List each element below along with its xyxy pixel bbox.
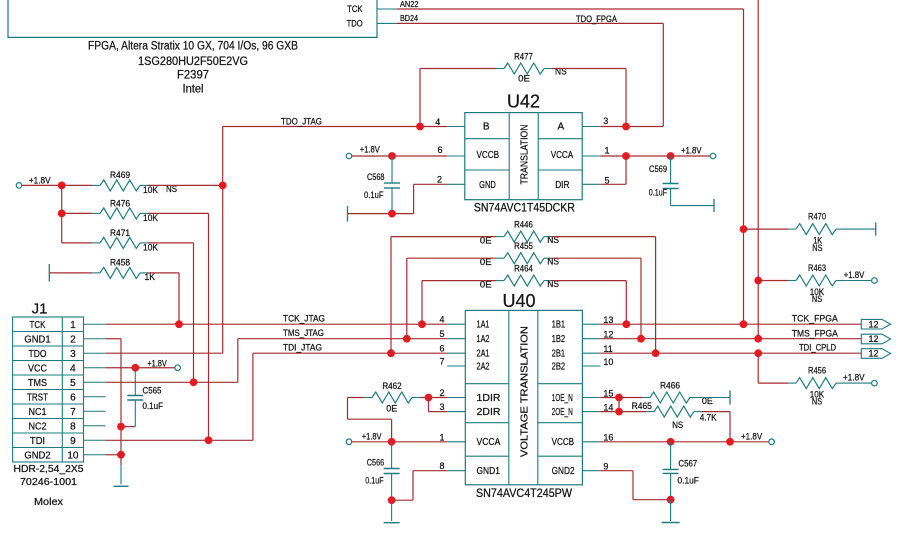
- resistor R476 10K: [92, 199, 158, 224]
- svg-text:6: 6: [437, 145, 442, 155]
- junction R469 left: [58, 182, 66, 190]
- svg-text:0.1uF: 0.1uF: [143, 401, 164, 411]
- FPGA block outline Altera Stratix 10 GX: [8, 0, 377, 37]
- svg-text:2A2: 2A2: [477, 361, 490, 372]
- net label TMS_FPGA: [792, 328, 838, 338]
- svg-text:TCK: TCK: [30, 320, 46, 331]
- svg-text:4: 4: [70, 363, 76, 374]
- svg-text:4.7K: 4.7K: [700, 412, 717, 422]
- ground symbol U40 right: [662, 522, 680, 524]
- wire TCK_JTAG J1 pin1 to U40 1A1: [106, 323, 448, 325]
- junction R455 on TMS_FPGA: [637, 335, 645, 343]
- svg-text:C567: C567: [678, 458, 697, 468]
- wire TDI_CPLD row U40 pin11 to tag: [600, 352, 861, 354]
- svg-text:0.1uF: 0.1uF: [364, 190, 384, 200]
- svg-text:10: 10: [67, 450, 79, 461]
- svg-text:R455: R455: [514, 241, 533, 251]
- resistor R466 0E: [642, 380, 713, 406]
- junction U42 pin3 node: [622, 123, 630, 131]
- svg-text:10K: 10K: [143, 185, 158, 195]
- junction C567 bottom: [667, 496, 675, 504]
- junction R456 branch on TDI_CPLD: [754, 349, 762, 357]
- junction R476 left: [58, 210, 66, 218]
- svg-text:NC2: NC2: [29, 421, 47, 432]
- power +1.8V terminal at U42 VCCA: [681, 145, 716, 159]
- svg-text:6: 6: [439, 344, 444, 354]
- FPGA pin number AN22: [400, 0, 419, 9]
- J1 part number text: [14, 463, 84, 508]
- svg-text:NS: NS: [812, 397, 822, 407]
- junction R471 on TMS: [190, 378, 198, 386]
- resistor R446 0E NS: [480, 220, 559, 246]
- svg-text:F2397: F2397: [177, 67, 209, 81]
- wire net TCK from FPGA AN22 to right vertical: [397, 9, 744, 324]
- svg-text:VCCA: VCCA: [551, 150, 574, 161]
- U42 cell text VCCB: [477, 150, 500, 161]
- power +1.8V terminal at J1 VCC: [147, 359, 180, 371]
- svg-text:6: 6: [70, 392, 76, 403]
- termination bar C569: [713, 199, 715, 212]
- wire TDI_CPLD branch to R456: [758, 353, 788, 383]
- net label TDI_JTAG: [283, 343, 322, 353]
- svg-text:+1.8V: +1.8V: [360, 145, 380, 155]
- svg-text:R463: R463: [808, 263, 826, 273]
- wire TDO row J1 pin3: [106, 352, 223, 354]
- svg-text:+1.8V: +1.8V: [741, 431, 762, 441]
- svg-text:VCCB: VCCB: [552, 437, 575, 448]
- junction C568 top: [388, 152, 396, 160]
- U42 pin 1 stub: [582, 145, 609, 156]
- svg-text:7: 7: [439, 357, 444, 367]
- svg-text:NS: NS: [672, 420, 683, 430]
- svg-text:U40: U40: [503, 291, 536, 311]
- svg-text:A: A: [557, 122, 564, 133]
- svg-text:7: 7: [70, 407, 76, 418]
- wire R463 right to +1.8V: [844, 280, 871, 282]
- net label TDO_FPGA: [576, 14, 617, 24]
- svg-text:TDO_FPGA: TDO_FPGA: [576, 14, 617, 24]
- wire U42 pin1 to +1.8V: [600, 155, 710, 157]
- wire TMS_JTAG to U40 1A2: [238, 338, 447, 340]
- svg-text:16: 16: [603, 433, 613, 443]
- svg-text:TRANSLATION: TRANSLATION: [519, 125, 531, 185]
- off-page connector tag TDI_CPLD page 12: [861, 349, 890, 359]
- junction R455 on TMS_JTAG: [403, 335, 411, 343]
- svg-text:3: 3: [70, 349, 76, 360]
- U42 cell text TRANSLATION: [519, 125, 531, 185]
- svg-text:R446: R446: [514, 220, 533, 230]
- svg-text:1DIR: 1DIR: [477, 393, 501, 404]
- svg-text:0E: 0E: [518, 74, 530, 84]
- wire TDO vertical to J1 TDO row: [222, 127, 224, 354]
- wire OE to R466: [619, 397, 642, 399]
- power +1.8V terminal at U42 VCCB: [346, 145, 380, 159]
- resistor R462 0E: [364, 381, 420, 413]
- U42 cell text GND: [479, 180, 496, 191]
- resistor R469 10K NS: [92, 170, 177, 195]
- net label TMS_JTAG: [283, 328, 324, 338]
- svg-text:R471: R471: [110, 228, 130, 238]
- U42 refdes label: [507, 92, 540, 112]
- FPGA caption text: [88, 41, 298, 96]
- junction R469 right on TDO net: [219, 182, 227, 190]
- resistor R455 0E NS: [480, 241, 559, 267]
- svg-text:R462: R462: [382, 381, 401, 391]
- wire VCC J1 pin4 to +1.8V: [106, 367, 175, 369]
- svg-text:R458: R458: [110, 258, 130, 268]
- svg-text:TDI: TDI: [30, 436, 45, 447]
- termination bar R470: [875, 223, 877, 236]
- svg-text:4: 4: [439, 315, 444, 325]
- junction R463 on TMS net: [754, 277, 762, 285]
- wire OE pins tie: [600, 398, 619, 412]
- svg-text:Molex: Molex: [34, 496, 64, 508]
- U40 right pin stubs and numbers: [582, 315, 613, 472]
- svg-text:GND2: GND2: [552, 466, 575, 477]
- svg-text:3: 3: [439, 402, 444, 412]
- svg-text:1SG280HU2F50E2VG: 1SG280HU2F50E2VG: [138, 56, 248, 68]
- U40 left pin stubs and numbers: [439, 315, 465, 472]
- svg-text:GND2: GND2: [24, 450, 51, 461]
- svg-text:R470: R470: [808, 212, 826, 222]
- U42 pin 4 stub: [435, 117, 465, 127]
- junction R458 on TCK_JTAG: [175, 320, 183, 328]
- wire net TMS_FPGA vertical from top edge: [757, 0, 759, 339]
- svg-text:0E: 0E: [386, 403, 397, 413]
- net label TDO_JTAG: [281, 117, 322, 127]
- svg-text:10: 10: [603, 357, 613, 367]
- junction U40 VCCA node: [388, 438, 396, 446]
- svg-text:GND1: GND1: [477, 466, 501, 477]
- svg-text:+1.8V: +1.8V: [147, 359, 166, 369]
- svg-text:R456: R456: [808, 365, 826, 375]
- net label TCK_FPGA: [792, 314, 838, 324]
- U42 pin 6 stub: [437, 145, 464, 156]
- svg-text:+1.8V: +1.8V: [681, 145, 702, 155]
- wire U42 pin4 riser to R477: [420, 69, 496, 127]
- wire R466 right to termination: [698, 397, 730, 399]
- svg-text:+1.8V: +1.8V: [844, 270, 865, 280]
- svg-text:0.1uF: 0.1uF: [649, 187, 668, 197]
- svg-text:12: 12: [868, 319, 878, 329]
- svg-text:14: 14: [603, 402, 613, 412]
- svg-text:R477: R477: [514, 51, 533, 61]
- U40 right cell text: [552, 320, 575, 478]
- svg-text:NS: NS: [812, 243, 822, 253]
- svg-text:Intel: Intel: [183, 81, 204, 95]
- wire R446 right riser: [552, 237, 656, 354]
- off-page connector tag TMS_FPGA page 12: [861, 334, 890, 344]
- svg-text:TDO: TDO: [347, 18, 363, 28]
- wire R464 right riser: [552, 281, 626, 325]
- power +1.8V terminal at U40 VCCA: [346, 431, 381, 444]
- svg-text:1: 1: [439, 432, 444, 442]
- svg-text:BD24: BD24: [400, 14, 418, 23]
- svg-text:10K: 10K: [143, 243, 158, 253]
- svg-text:SN74AVC4T245PW: SN74AVC4T245PW: [476, 488, 572, 500]
- junction TMS vertical end: [754, 335, 762, 343]
- junction C569 top: [667, 152, 675, 160]
- ground symbol J1: [114, 485, 129, 487]
- U42 part number label: [474, 203, 575, 215]
- svg-text:VOLTAGE TRANSLATION: VOLTAGE TRANSLATION: [519, 326, 531, 457]
- wire R465 right to +1.8V: [702, 412, 730, 442]
- resistor R463 10K NS: [788, 263, 844, 304]
- wire TCK_FPGA row U40 pin13 to tag: [600, 323, 861, 325]
- svg-text:2A1: 2A1: [477, 349, 490, 360]
- svg-text:2: 2: [439, 388, 444, 398]
- svg-text:TDO: TDO: [29, 349, 47, 360]
- svg-text:12: 12: [868, 349, 878, 359]
- svg-text:+1.8V: +1.8V: [843, 373, 865, 383]
- connector J1 body HDR-2,54_2X5: [13, 317, 84, 462]
- svg-text:9: 9: [70, 436, 76, 447]
- svg-text:2OE_N: 2OE_N: [552, 407, 573, 418]
- svg-text:TDI_CPLD: TDI_CPLD: [799, 343, 836, 353]
- U42 cell text A: [557, 122, 564, 133]
- svg-text:J1: J1: [32, 301, 48, 318]
- ground bar terminal left of C568: [347, 206, 349, 222]
- svg-text:R466: R466: [660, 380, 680, 390]
- wire C569 bottom to termination: [671, 205, 714, 207]
- svg-text:11: 11: [603, 344, 612, 354]
- wire OE to R465: [619, 411, 646, 413]
- capacitor C566 0.1uF: [365, 442, 399, 500]
- svg-text:+1.8V: +1.8V: [362, 431, 382, 441]
- J1 refdes label: [32, 301, 48, 318]
- U42 pin 2 stub: [437, 175, 465, 185]
- capacitor C565 0.1uF: [127, 368, 163, 427]
- U40 left cell text: [477, 320, 501, 478]
- junction R464 on TCK_FPGA: [622, 320, 630, 328]
- wire R476 right down to TDI row: [148, 213, 209, 440]
- svg-text:TDI_JTAG: TDI_JTAG: [283, 343, 322, 353]
- wire TMS J1 pin5 riser: [106, 339, 238, 383]
- svg-text:R465: R465: [632, 401, 652, 411]
- power +1.8V terminal at R469: [16, 175, 50, 188]
- wire TDI_JTAG to U40 2A1: [253, 352, 447, 354]
- svg-text:TDO_JTAG: TDO_JTAG: [281, 117, 322, 127]
- svg-text:FPGA, Altera Stratix 10 GX, 70: FPGA, Altera Stratix 10 GX, 704 I/Os, 96…: [88, 41, 298, 53]
- svg-text:15: 15: [603, 388, 613, 398]
- wire GND2 J1 pin10: [106, 454, 121, 456]
- svg-text:0.1uF: 0.1uF: [365, 475, 384, 485]
- off-page connector tag TCK_FPGA page 12: [861, 319, 890, 329]
- svg-text:4: 4: [435, 117, 440, 127]
- resistor R470 1K NS: [788, 212, 844, 253]
- termination bar R466: [729, 391, 731, 405]
- svg-text:TCK_JTAG: TCK_JTAG: [283, 314, 325, 324]
- svg-text:+1.8V: +1.8V: [29, 175, 51, 185]
- junction TCK vertical end: [740, 320, 748, 328]
- svg-text:C568: C568: [367, 172, 385, 182]
- junction C565 top: [131, 364, 139, 372]
- junction U42 pin4 node: [416, 123, 424, 131]
- svg-text:U42: U42: [507, 92, 540, 112]
- svg-text:NC1: NC1: [29, 407, 47, 418]
- svg-text:C569: C569: [649, 164, 667, 174]
- junction 2OE_N: [615, 408, 623, 416]
- capacitor C567 0.1uF: [663, 442, 700, 500]
- svg-text:0.1uF: 0.1uF: [678, 476, 700, 486]
- wire +1.8V to R469: [22, 184, 92, 186]
- svg-text:1A2: 1A2: [477, 334, 490, 345]
- svg-text:B: B: [483, 122, 490, 133]
- U42 cell text B: [483, 122, 490, 133]
- svg-text:TMS_FPGA: TMS_FPGA: [792, 328, 838, 338]
- svg-text:1: 1: [70, 320, 76, 331]
- resistor R458 1K: [92, 258, 155, 283]
- wire R477 right to U42 pin3: [552, 69, 626, 127]
- U40 refdes label: [503, 291, 536, 311]
- wire R462 right to DIR pins: [420, 397, 447, 399]
- capacitor C568 0.1uF: [364, 156, 400, 214]
- power +1.8V terminal at R463: [844, 270, 878, 283]
- wire net TDO_FPGA from FPGA BD24 down to U42 pin 3: [397, 23, 663, 126]
- svg-text:TRST: TRST: [27, 392, 48, 403]
- junction 1OE_N: [615, 394, 623, 402]
- svg-text:TCK_FPGA: TCK_FPGA: [792, 314, 838, 324]
- svg-text:3: 3: [603, 116, 608, 126]
- svg-text:2B2: 2B2: [552, 361, 566, 372]
- svg-text:C566: C566: [367, 457, 384, 467]
- wire R455 right riser: [552, 258, 641, 339]
- junction C566 bottom: [388, 496, 396, 504]
- wire U40 GND1 to ground: [392, 471, 448, 501]
- svg-text:AN22: AN22: [400, 0, 419, 9]
- capacitor C569 0.1uF: [649, 156, 679, 206]
- wire TMS_FPGA row U40 pin12 to tag: [600, 338, 861, 340]
- junction C568 bottom: [388, 210, 396, 218]
- svg-text:R476: R476: [110, 199, 130, 209]
- U40 part number label: [476, 488, 572, 500]
- svg-text:DIR: DIR: [555, 180, 569, 191]
- svg-text:HDR-2,54_2X5: HDR-2,54_2X5: [14, 463, 84, 475]
- svg-text:VCCA: VCCA: [477, 437, 501, 448]
- wire +1.8V to U40 pin1: [352, 441, 447, 443]
- resistor R477 0E NS: [496, 51, 567, 83]
- wire GND1 J1 pin2 to ground: [106, 339, 121, 485]
- resistor R471 10K: [92, 228, 158, 253]
- junction R446 on TDI_CPLD: [652, 349, 660, 357]
- power +1.8V terminal at R456: [843, 373, 877, 386]
- wire R458 right down to TCK row: [148, 273, 179, 324]
- svg-text:13: 13: [603, 315, 613, 325]
- termination bar R458 left: [48, 264, 50, 282]
- junction R476 on TDI: [205, 436, 213, 444]
- wire ground drop U40 right: [670, 500, 672, 521]
- junction R465 on VCCB: [726, 438, 734, 446]
- svg-text:C565: C565: [143, 385, 162, 395]
- svg-text:R464: R464: [514, 264, 533, 274]
- svg-text:5: 5: [70, 378, 76, 389]
- wire TMS vertical to R463: [758, 280, 788, 282]
- wire R471 left: [62, 242, 92, 244]
- wire DIR tie U42 pin5 to pin1: [600, 156, 626, 184]
- junction R470 on TCK net: [740, 225, 748, 233]
- junction R464 on TCK_JTAG: [418, 320, 426, 328]
- svg-text:1B1: 1B1: [552, 320, 566, 331]
- svg-text:TCK: TCK: [347, 4, 363, 14]
- power +1.8V terminal at U40 VCCB: [741, 431, 774, 444]
- svg-text:1: 1: [604, 145, 609, 155]
- U40 cell text VOLTAGE TRANSLATION: [519, 326, 531, 457]
- U42 pin 3 stub: [582, 116, 608, 127]
- wire TCK vertical to R470: [744, 228, 789, 230]
- svg-text:TMS: TMS: [28, 378, 47, 389]
- svg-text:2DIR: 2DIR: [477, 407, 501, 418]
- svg-text:1OE_N: 1OE_N: [552, 393, 573, 404]
- wire R462 left to +1.8V: [348, 398, 392, 442]
- resistor R456 10K NS: [788, 365, 844, 406]
- resistor R465 4.7K NS: [632, 401, 717, 430]
- svg-text:2: 2: [70, 334, 76, 345]
- junction C567 top: [667, 438, 675, 446]
- wire U40 GND2 to ground: [600, 471, 670, 500]
- U42 pin 5 stub: [582, 176, 609, 186]
- svg-text:TMS_JTAG: TMS_JTAG: [283, 328, 324, 338]
- wire +1.8V to U42 pin6: [352, 155, 447, 157]
- svg-text:R469: R469: [110, 170, 130, 180]
- junction U42 pin1 node: [622, 152, 630, 160]
- svg-text:2B1: 2B1: [552, 349, 566, 360]
- wire R464 left riser: [422, 281, 496, 325]
- J1 pin name and number text: [24, 320, 78, 462]
- wire R471 right down to TMS row: [148, 243, 194, 382]
- svg-text:10K: 10K: [143, 213, 158, 223]
- wire R476 left: [62, 212, 92, 214]
- ground symbol U40 left: [384, 522, 400, 524]
- svg-text:NS: NS: [812, 294, 822, 304]
- svg-text:1B2: 1B2: [552, 334, 566, 345]
- FPGA pin TDO stub: [347, 18, 397, 28]
- svg-text:VCCB: VCCB: [477, 150, 500, 161]
- resistor R464 0E NS: [480, 264, 559, 290]
- op-amp U42 body SN74AVC1T45DCKR: [465, 113, 582, 200]
- svg-text:GND: GND: [479, 180, 496, 191]
- svg-text:70246-1001: 70246-1001: [20, 476, 77, 488]
- junction R446 on TDI_JTAG: [387, 349, 395, 357]
- U42 cell text DIR: [555, 180, 569, 191]
- wire ground drop U40 left: [391, 500, 393, 521]
- wire TDO_JTAG into U42 pin4: [223, 126, 447, 128]
- J1 pin stubs: [84, 324, 106, 455]
- svg-text:1A1: 1A1: [477, 320, 490, 331]
- wire TDI J1 pin9 riser: [106, 353, 253, 440]
- wire R469 to TDO vertical: [148, 184, 223, 186]
- wire R446 left riser: [391, 237, 496, 354]
- junction C565 bottom on ground: [117, 423, 125, 431]
- wire +1.8V rail down left: [61, 185, 63, 243]
- U42 cell text VCCA: [551, 150, 574, 161]
- svg-text:5: 5: [439, 329, 444, 339]
- svg-text:VCC: VCC: [28, 363, 47, 374]
- junction GND2 row on ground: [117, 451, 125, 459]
- junction R462 DIR node: [425, 394, 433, 402]
- wire R456 right to +1.8V: [844, 382, 871, 384]
- svg-text:GND1: GND1: [24, 334, 51, 345]
- svg-text:9: 9: [603, 462, 608, 472]
- op-amp U40 body SN74AVC4T245PW: [465, 310, 582, 484]
- wire U42 GND rail: [348, 184, 447, 213]
- net label TDI_CPLD: [799, 343, 836, 353]
- svg-text:2: 2: [437, 175, 442, 185]
- wire U40 VCCB to +1.8V: [600, 441, 768, 443]
- FPGA pin TCK stub: [347, 4, 397, 14]
- wire R458 left: [49, 272, 92, 274]
- net label TCK_JTAG: [283, 314, 325, 324]
- wire C565 bottom to ground: [121, 426, 135, 428]
